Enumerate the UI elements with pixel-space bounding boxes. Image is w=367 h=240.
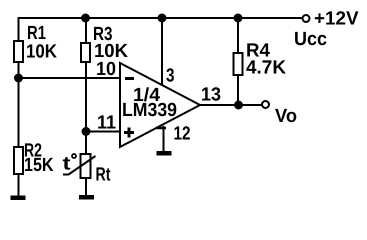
wire top +12V rail — [18, 17, 303, 19]
ground under R2 — [11, 196, 26, 201]
node rail-pin3 junction dot — [158, 14, 167, 23]
svg-text:4.7K: 4.7K — [246, 58, 286, 79]
ground under Rt — [79, 195, 94, 200]
node rail-R3 junction dot — [81, 14, 90, 23]
svg-text:10: 10 — [96, 59, 116, 80]
wire pin 3 from rail to op-amp top edge — [161, 18, 163, 86]
terminal +12V open circle — [303, 15, 310, 22]
node A junction dot — [14, 74, 23, 83]
op-amp inverting input minus sign — [125, 77, 134, 80]
svg-text:11: 11 — [97, 113, 116, 134]
node B junction dot — [82, 127, 91, 136]
wire pin 12 to ground — [163, 126, 165, 151]
thermistor Rt — [81, 154, 91, 178]
wire R3 top lead — [85, 18, 87, 44]
svg-text:10K: 10K — [26, 42, 57, 63]
wire R2 top lead — [18, 78, 20, 148]
wire R1 top lead — [18, 17, 20, 42]
wire output from op-amp apex to Vo terminal — [200, 104, 262, 106]
wire node B to pin 11 — [86, 131, 120, 133]
svg-text:LM339: LM339 — [122, 100, 177, 121]
op-amp non-inverting input plus sign — [124, 131, 134, 134]
svg-text:t: t — [63, 154, 72, 175]
svg-text:+12V: +12V — [314, 9, 359, 30]
svg-text:13: 13 — [201, 85, 221, 106]
wire R2 bottom lead — [18, 174, 20, 196]
svg-text:Ucc: Ucc — [294, 29, 327, 50]
ground under pin 12 — [157, 151, 172, 156]
resistor R3 — [81, 43, 90, 62]
wire R4 top lead — [237, 18, 239, 54]
wire R3 bottom lead crossing pin10 wire — [85, 62, 87, 132]
svg-text:15K: 15K — [24, 155, 54, 176]
svg-text:12: 12 — [174, 124, 191, 145]
op-amp U1 comparator triangle 1/4 LM339 — [120, 63, 200, 147]
wire Rt top lead — [85, 132, 87, 156]
wire Rt bottom lead — [85, 178, 87, 196]
wire R4 bottom lead — [237, 75, 239, 105]
resistor R1 — [14, 41, 23, 62]
svg-text:Rt: Rt — [96, 165, 111, 186]
svg-text:3: 3 — [166, 66, 175, 87]
svg-text:Vo: Vo — [275, 106, 297, 127]
node rail-R4 junction dot — [234, 14, 243, 23]
resistor R2 — [14, 147, 23, 174]
wire R1 bottom lead — [18, 62, 20, 78]
resistor R4 — [234, 53, 243, 75]
wire node A to pin 10 — [19, 77, 121, 79]
node output junction dot — [234, 101, 243, 110]
terminal Vo open circle — [262, 101, 269, 108]
